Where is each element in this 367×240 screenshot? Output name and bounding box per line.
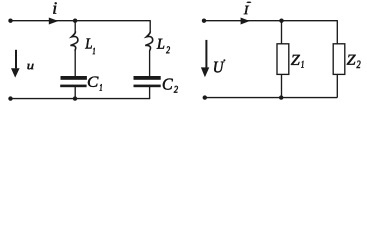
- label C2 subscript: [174, 86, 178, 93]
- current arrow I head: [241, 18, 250, 25]
- capacitor C1 bottom plate: [60, 85, 86, 88]
- capacitor C2 top plate: [134, 76, 161, 80]
- wire Z2 to bottom rail: [336, 74, 338, 97]
- label L2 letter: [157, 39, 165, 49]
- label Z2 letter: [347, 55, 356, 65]
- wire top rail left: [11, 20, 151, 22]
- voltage arrow U shaft: [205, 40, 207, 68]
- inductor L2 coil: [145, 31, 153, 50]
- inductor L1 coil: [70, 31, 78, 50]
- label Z1 letter: [291, 55, 300, 65]
- terminal node bottom-left: [8, 96, 12, 100]
- label L2 subscript: [166, 46, 170, 53]
- terminal node top-left: [202, 19, 206, 23]
- wire lead into L1: [74, 21, 76, 32]
- terminal node bottom-left: [203, 95, 207, 99]
- label C1 letter: [88, 77, 99, 87]
- wire corner lead into Z2: [336, 20, 338, 44]
- label U (phasor): [214, 62, 224, 73]
- dot accent of phasor U: [223, 59, 225, 61]
- wire L2 to C2: [149, 50, 151, 76]
- label C1 subscript: [100, 84, 102, 91]
- voltage arrow U head: [201, 67, 209, 77]
- wire C1 to bottom rail: [74, 87, 76, 99]
- wire top rail right: [204, 20, 337, 22]
- wire bottom rail left: [11, 98, 151, 100]
- node junction top of Z1 branch: [279, 19, 283, 23]
- label Z2 subscript: [357, 61, 361, 68]
- voltage arrow u shaft: [15, 50, 17, 69]
- node junction top of L1 branch: [73, 19, 77, 23]
- label L1 letter: [85, 39, 92, 49]
- label u: [27, 64, 33, 69]
- wire C2 to bottom rail: [149, 87, 151, 99]
- voltage arrow u head: [11, 68, 20, 77]
- wire lead into Z1: [281, 21, 283, 44]
- wire L1 to C1: [74, 50, 76, 76]
- node junction bottom of C1 branch: [73, 96, 77, 100]
- capacitor C1 top plate: [61, 76, 87, 80]
- label Z1 subscript: [301, 61, 303, 68]
- capacitor C2 bottom plate: [134, 85, 161, 88]
- label L1 subscript: [93, 48, 95, 54]
- current arrow i head: [49, 18, 59, 25]
- label I (phasor): [244, 6, 249, 14]
- wire bottom rail right: [205, 97, 337, 99]
- label i: [53, 2, 56, 13]
- label C2 letter: [163, 79, 173, 90]
- wire corner lead into L2: [149, 20, 151, 32]
- wire Z1 to bottom rail: [281, 74, 283, 97]
- terminal node top-left: [8, 19, 12, 23]
- dot accent of phasor I: [247, 2, 252, 4]
- node junction bottom of Z1 branch: [279, 95, 283, 99]
- impedance box Z1: [277, 44, 289, 75]
- impedance box Z2: [333, 44, 345, 75]
